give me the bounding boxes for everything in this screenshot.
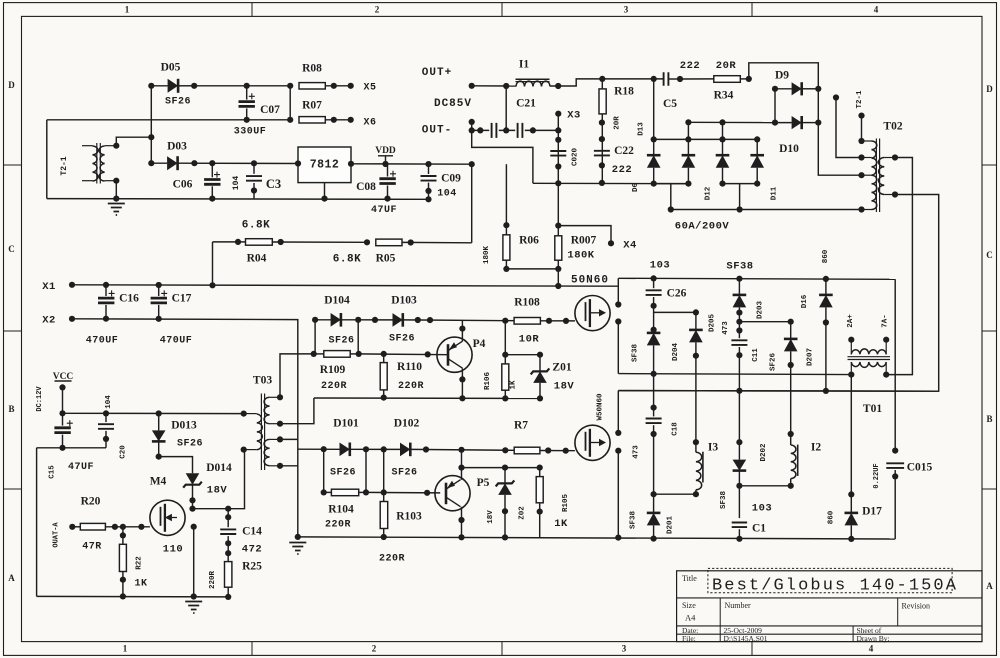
svg-text:R18: R18 [614,86,634,98]
svg-text:R104: R104 [328,504,354,516]
svg-text:D014: D014 [206,462,232,474]
svg-text:103: 103 [650,260,670,272]
wire 50N60 collector to bus [615,301,621,307]
svg-text:R105: R105 [562,494,570,513]
wire P4 base from R109/R110 [359,353,448,356]
svg-text:I3: I3 [708,442,718,454]
svg-text:D9: D9 [775,70,789,82]
capacitor C06 [209,160,215,166]
wire VDD to R05 feedback [469,161,475,167]
wire D6/D12 row to D10 [688,121,775,123]
wire W50N60 emitter to bottom line [615,448,621,454]
ground-side bus under C020/C22 [533,182,689,184]
svg-text:2: 2 [375,5,380,15]
svg-text:1: 1 [123,644,128,654]
wire P4 collector [459,326,465,332]
svg-text:C07: C07 [260,104,280,116]
svg-text:C09: C09 [441,173,461,185]
capacitor C07 330UF [244,83,250,89]
wire D101 parallel R104 left [323,449,325,492]
svg-text:SF26: SF26 [165,97,191,108]
svg-text:7812: 7812 [310,159,340,172]
wire tap1 to R109 line [280,354,314,397]
wire rail A / D17 column [848,372,854,378]
terminal X4 [608,240,614,246]
svg-text:C18: C18 [672,422,680,436]
wire D102 to R103 [383,449,385,492]
svg-text:Revision: Revision [902,602,930,611]
svg-text:222: 222 [612,164,632,176]
svg-text:D6: D6 [632,183,640,193]
svg-text:Number: Number [725,601,752,610]
svg-text:D12: D12 [705,186,713,200]
svg-text:SF26: SF26 [391,468,417,479]
svg-text:C17: C17 [172,293,192,305]
terminal X5 [348,83,354,89]
wire drop to 60A bus left [670,184,672,210]
wire OUT+ to I1 [472,85,516,87]
svg-text:2: 2 [372,644,377,654]
svg-text:R06: R06 [519,235,539,247]
wire I1 to C5 rail [550,79,663,86]
wire R007 top to X4 [558,226,611,244]
svg-text:R04: R04 [247,253,267,265]
wire X3 column [557,114,559,184]
svg-text:C14: C14 [242,526,262,538]
svg-text:A4: A4 [685,613,696,623]
svg-text:D203: D203 [757,301,765,320]
wire diode tops row [654,138,758,140]
svg-text:R34: R34 [714,90,734,102]
svg-text:180K: 180K [483,246,491,265]
capacitor C16 470UF [103,282,109,288]
svg-text:OUAT-A: OUAT-A [52,522,60,548]
svg-text:R05: R05 [376,253,396,265]
rail B [618,390,938,393]
svg-text:R25: R25 [242,561,262,573]
wire D203 row to D207 [739,321,790,323]
svg-text:0.22UF: 0.22UF [873,463,881,488]
svg-text:D205: D205 [709,314,717,333]
wire R08-R07 link [289,86,291,120]
svg-text:W50N60: W50N60 [597,393,605,421]
svg-text:SF38: SF38 [726,261,753,273]
svg-text:180K: 180K [567,250,594,262]
svg-text:SF26: SF26 [770,353,778,372]
svg-text:D17: D17 [862,506,882,518]
svg-text:7A-: 7A- [882,314,890,328]
svg-text:R7: R7 [514,420,528,432]
svg-text:R22: R22 [136,556,144,570]
svg-text:D16: D16 [801,294,809,308]
svg-text:D11: D11 [771,186,779,200]
svg-text:220R: 220R [379,554,405,565]
svg-text:SF38: SF38 [720,491,728,510]
transformer T2-1 [93,146,98,181]
wire R06-R007 bottoms [506,268,558,270]
svg-text:18V: 18V [487,510,495,524]
svg-text:T01: T01 [863,403,882,415]
wire P5 emitter to bottom line [458,517,464,523]
svg-text:D104: D104 [324,295,350,307]
svg-text:1K: 1K [510,380,518,390]
svg-text:R110: R110 [397,361,422,373]
regulator U 7812 [298,147,351,183]
svg-text:20R: 20R [614,116,622,130]
svg-text:47UF: 47UF [371,205,397,216]
svg-text:OUT-: OUT- [422,125,452,137]
wire T2-1 bottom tap to ground bus [113,178,119,184]
svg-text:SF26: SF26 [177,439,203,450]
svg-text:C06: C06 [173,179,193,191]
svg-text:220R: 220R [209,571,217,590]
svg-text:X2: X2 [42,315,56,327]
svg-text:110: 110 [163,544,183,556]
svg-text:D013: D013 [171,420,197,432]
svg-text:860: 860 [828,510,836,524]
wire T02 secondary bottom to rail B [618,195,938,392]
wire I3 bottom link [654,493,696,495]
svg-text:C20: C20 [120,445,128,459]
svg-text:A: A [986,581,993,591]
svg-text:2A+: 2A+ [847,314,855,328]
wire D104 cathode to R109 right [357,320,359,354]
svg-text:4: 4 [874,5,879,15]
svg-text:20R: 20R [716,60,737,72]
svg-text:104: 104 [437,189,457,200]
svg-text:1K: 1K [134,579,147,590]
wire OUT- stub [471,122,473,130]
svg-text:X3: X3 [567,110,581,122]
wire R34 to D9/D10 node [749,63,819,89]
wire P5 collector to gate line [458,447,464,453]
svg-text:B: B [986,414,992,424]
wire D013 to D014 [159,457,193,474]
svg-text:222: 222 [680,60,700,72]
svg-text:R007: R007 [571,235,597,247]
svg-text:R103: R103 [396,511,422,523]
wire tap2 link [280,398,314,424]
svg-text:DC85V: DC85V [434,98,472,110]
svg-text:47UF: 47UF [68,462,94,473]
wire Z02/R105 top link [462,467,540,469]
gate line 2 D101/D102/R7 [298,448,340,450]
svg-text:P4: P4 [473,338,486,350]
rail A to T01 [618,374,851,375]
wire 50N60 emitter to rail A [615,318,621,324]
svg-text:C015: C015 [907,462,933,474]
capacitor C21 input cap B [503,127,509,133]
title block [677,571,982,642]
terminal X6 [348,117,354,123]
svg-text:SF26: SF26 [389,334,415,345]
svg-text:C15: C15 [49,465,57,479]
capacitor C08 47UF [387,164,389,177]
svg-text:D: D [8,80,15,90]
svg-text:Best/Globus 140-150A: Best/Globus 140-150A [712,577,958,596]
wire X2 bus to ground stem [72,319,298,537]
svg-text:D:\S145A.S01: D:\S145A.S01 [724,634,768,643]
svg-text:104: 104 [105,395,113,409]
wire C21 center tap [505,86,507,130]
svg-text:3: 3 [624,5,629,15]
svg-text:D13: D13 [637,122,645,136]
svg-text:SF38: SF38 [632,344,640,363]
snubber bus 103/SF38/860 [618,278,895,279]
svg-text:60A/200V: 60A/200V [675,221,730,233]
wire 7812 ground pin [324,183,326,199]
svg-text:473: 473 [633,445,641,459]
svg-text:SF26: SF26 [328,336,354,347]
wire left loop to C07 bottom [47,119,290,121]
svg-text:C3: C3 [266,177,281,191]
left return wire [36,448,38,597]
wire M4 source to ground bus [191,524,197,530]
svg-text:220R: 220R [398,381,424,392]
ground symbol aux [108,204,125,216]
svg-text:SF38: SF38 [630,511,638,530]
wire D9/D10 cathodes to T02 tap [818,89,861,175]
svg-text:X1: X1 [42,281,56,293]
svg-text:SF26: SF26 [330,468,356,479]
svg-text:C26: C26 [667,288,687,300]
svg-text:VDD: VDD [375,146,396,156]
svg-text:C020: C020 [572,148,580,167]
svg-text:X6: X6 [363,118,376,129]
svg-text:D101: D101 [333,418,359,430]
wire VDD output rail [351,163,472,165]
resistor R08 [287,83,293,89]
svg-text:330UF: 330UF [234,127,267,138]
svg-text:6.8K: 6.8K [242,220,270,232]
svg-text:R108: R108 [514,297,540,309]
wire X1 bus [72,285,618,286]
svg-text:47R: 47R [82,542,102,553]
wire bus corner down to C015 [894,279,896,450]
diode D03 [148,160,154,166]
svg-text:M4: M4 [150,476,167,488]
svg-text:Drawn By:: Drawn By: [857,634,890,643]
wire D101 parallel R104 right [365,449,367,492]
bottom return line [298,537,895,539]
svg-text:T02: T02 [883,121,902,133]
wire M4 drain line to T03 [193,450,245,509]
svg-text:C1: C1 [752,523,766,535]
wire tap3 to ground column [280,438,298,440]
wire D9/D10 anode link [774,89,776,123]
svg-text:D05: D05 [161,62,181,74]
capacitor C22 222 [594,151,610,156]
svg-text:472: 472 [242,544,262,556]
bottom ground bus left [37,595,228,598]
svg-text:D10: D10 [779,143,799,155]
wire diode bottoms pair 2 [723,183,758,185]
svg-text:470UF: 470UF [86,336,119,347]
wire P5 base line [366,491,440,494]
svg-text:D103: D103 [391,295,417,307]
svg-text:File:: File: [682,634,696,643]
svg-text:C16: C16 [119,293,139,305]
svg-text:C: C [8,244,15,254]
terminal X3 [555,111,561,117]
svg-text:860: 860 [822,249,830,263]
svg-text:D102: D102 [394,418,420,430]
svg-text:18V: 18V [207,485,228,497]
wire OUT- return loop [472,130,533,183]
svg-text:C22: C22 [614,145,634,157]
wire stub to T02 mid tap [833,94,839,100]
capacitor C21 input cap A [472,129,490,131]
svg-text:473: 473 [722,321,730,335]
svg-text:10R: 10R [519,334,540,346]
svg-text:T2-1: T2-1 [60,156,69,175]
gate line D104/D103/R108 [315,319,358,321]
svg-text:D03: D03 [167,141,187,153]
svg-text:103: 103 [752,503,772,515]
wire T2-1 top tap to D05/D03 node [113,143,119,149]
ground symbol M4 [185,602,202,614]
svg-text:P5: P5 [477,477,490,489]
svg-text:18V: 18V [554,381,575,393]
svg-text:3: 3 [622,644,627,654]
svg-text:50N60: 50N60 [571,275,609,287]
svg-text:D201: D201 [667,516,675,535]
svg-text:C08: C08 [356,181,376,193]
svg-text:220R: 220R [321,381,347,392]
svg-text:C5: C5 [663,98,677,110]
wire C26 to D205 branch [654,311,696,313]
svg-text:104: 104 [232,176,241,191]
svg-text:1K: 1K [554,518,568,530]
svg-text:4: 4 [869,644,874,654]
svg-text:470UF: 470UF [160,336,193,347]
svg-text:X5: X5 [363,83,376,94]
wire drop to 60A bus right [739,184,741,210]
svg-text:R08: R08 [302,63,322,75]
resistor R07 [287,117,293,123]
svg-text:X4: X4 [623,240,637,252]
inductor I1 [503,83,509,89]
wire C15/C20 ground link [37,447,106,449]
wire tap4 to ground column [280,465,298,467]
diode D05 [148,83,154,89]
svg-text:Z01: Z01 [552,362,571,374]
wire T02 secondary top to T01 [886,158,912,375]
wire D104 anode to R109 line [314,320,316,354]
svg-text:R20: R20 [81,496,101,508]
node D05/D03 anode vertical [150,86,152,163]
resistor R18 20R [599,76,605,82]
svg-text:220R: 220R [325,520,351,531]
capacitor C3 104 [251,160,257,166]
svg-text:OUT+: OUT+ [422,67,452,79]
VCC bus to T03 [63,412,244,414]
svg-text:D204: D204 [672,343,680,362]
svg-text:C11: C11 [752,348,760,362]
svg-text:D202: D202 [760,443,768,462]
capacitor C17 470UF [156,282,162,288]
ground symbol mid [295,534,301,540]
wire P4 emitter [459,376,465,382]
svg-text:D: D [986,84,993,94]
wire I2 bottom link [739,485,790,487]
svg-text:Z02: Z02 [519,506,527,520]
svg-text:R07: R07 [302,100,322,112]
svg-text:I2: I2 [811,442,821,454]
svg-text:A: A [8,573,15,583]
svg-text:C: C [986,250,993,260]
svg-text:C21: C21 [516,98,536,110]
wire D05 to C07/R08 [194,85,290,87]
emitter return line [314,397,540,399]
ground bus of aux supply [47,198,429,201]
wire W50N60 collector to rail B [615,430,621,436]
svg-text:I1: I1 [519,59,529,71]
svg-text:1: 1 [125,5,130,15]
svg-text:DC:12V: DC:12V [36,386,44,412]
svg-text:R106: R106 [484,372,492,391]
svg-text:R109: R109 [320,364,346,376]
svg-text:T03: T03 [253,375,272,387]
svg-text:B: B [8,404,14,414]
svg-text:Size: Size [682,601,696,610]
wire diode bottoms pair 1 [654,183,689,185]
svg-text:T2-1: T2-1 [856,90,864,109]
svg-text:D207: D207 [807,348,815,366]
svg-text:6.8K: 6.8K [333,254,361,266]
svg-text:Title: Title [682,574,697,583]
capacitor C09 104 [425,161,431,167]
capacitor C020 [550,151,566,156]
